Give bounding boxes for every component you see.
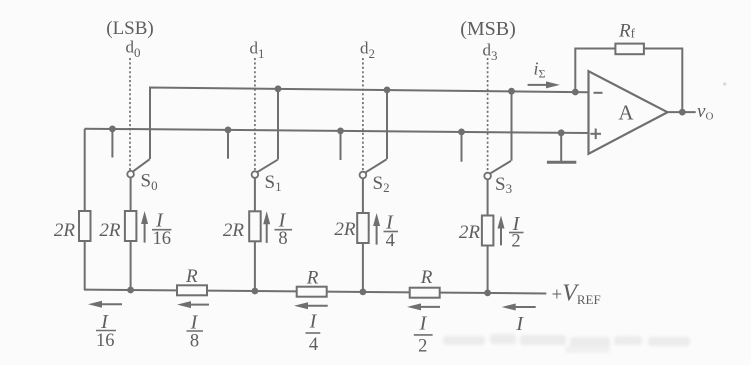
current arrow I/4 up — [373, 213, 380, 245]
ground bus wire — [85, 129, 589, 133]
output wire — [668, 111, 696, 113]
svg-text:S0: S0 — [141, 171, 158, 194]
svg-text:2R: 2R — [99, 220, 121, 241]
wire: S2 branch (pole to rail) — [362, 178, 364, 292]
node: output — [679, 109, 686, 116]
wire: S3 ground contact stub — [461, 132, 463, 162]
svg-text:2R: 2R — [459, 222, 481, 243]
svg-text:vO: vO — [697, 101, 713, 123]
svg-text:R: R — [306, 268, 319, 289]
current label I/4 (rail) — [306, 311, 321, 356]
op-amp U1 triangle — [589, 71, 668, 154]
resistor 2R bit1 — [249, 211, 261, 241]
svg-text:2: 2 — [418, 337, 427, 357]
svg-text:+VREF: +VREF — [552, 281, 601, 308]
wire: S3 summing contact drop — [511, 91, 513, 161]
current label I/8 (rail) — [187, 312, 204, 352]
current label I/16 (rail) — [96, 311, 116, 351]
bit line d2 (dotted) — [362, 58, 364, 172]
svg-text:2R: 2R — [334, 219, 356, 240]
svg-text:(MSB): (MSB) — [460, 18, 516, 40]
resistor 2R bit0 — [125, 211, 136, 241]
switch S3 lever — [490, 161, 511, 174]
node: S3 summing junction — [508, 88, 515, 95]
node: rail node S0 — [127, 287, 134, 294]
resistor 2R bit3 — [482, 216, 494, 246]
wire: S0 ground contact stub — [111, 129, 113, 158]
wire: terminator branch (ground bus to rail) — [84, 129, 86, 290]
current label I/2 (rail) — [414, 313, 433, 357]
wire: S0 branch (pole to rail) — [130, 177, 132, 290]
op-amp minus input mark — [594, 92, 603, 94]
bottom rail wire (to +VREF) — [84, 290, 546, 294]
ground symbol — [547, 133, 576, 163]
bit line d1 (dotted) — [254, 58, 256, 171]
svg-text:R: R — [420, 267, 433, 288]
svg-text:d2: d2 — [360, 39, 375, 62]
svg-text:R: R — [185, 266, 198, 287]
svg-text:16: 16 — [96, 331, 115, 351]
current arrow i sigma (into op-amp) — [528, 81, 560, 88]
node: S1 summing junction — [275, 85, 282, 92]
switch S2 lever — [365, 159, 387, 173]
resistor R ladder2 — [297, 287, 327, 297]
resistor R ladder3 — [410, 288, 440, 298]
svg-text:2R: 2R — [223, 220, 245, 241]
current label I/8 (branch) — [275, 210, 293, 250]
resistor R ladder1 — [177, 285, 207, 295]
svg-text:I: I — [515, 313, 524, 335]
switch S0 pole — [127, 171, 134, 178]
feedback wire (summing node up and over to output) — [575, 49, 682, 113]
node: S1 ground junction — [225, 126, 232, 133]
current label I/16 (branch) — [152, 210, 171, 250]
op-amp plus input mark — [590, 129, 601, 140]
current arrow I/16 rail (left) — [88, 301, 122, 308]
current arrow I/2 rail — [407, 303, 440, 310]
switch S0 lever — [133, 159, 150, 172]
resistor Rf — [615, 44, 644, 55]
summing bus wire — [150, 88, 588, 160]
svg-text:2: 2 — [511, 232, 520, 252]
svg-text:4: 4 — [309, 335, 318, 355]
current arrow I/4 rail — [294, 302, 328, 309]
svg-text:16: 16 — [152, 229, 171, 249]
svg-text:8: 8 — [278, 229, 287, 249]
svg-text:S1: S1 — [265, 172, 282, 194]
wire: S1 summing contact drop — [277, 89, 279, 160]
node: rail node S3 — [484, 290, 491, 297]
svg-text:I: I — [309, 311, 318, 333]
wire: S1 branch (pole to rail) — [254, 178, 256, 291]
svg-text:d1: d1 — [250, 39, 265, 62]
watermark smudge (scan artifact) — [443, 334, 690, 353]
switch S3 pole — [484, 173, 491, 180]
svg-text:A: A — [618, 101, 634, 125]
resistor 2R bit2 — [357, 213, 369, 243]
svg-text:4: 4 — [386, 231, 395, 251]
current arrow I/2 up — [498, 216, 505, 246]
svg-text:S3: S3 — [495, 174, 512, 196]
current arrow I rail (near VREF) — [502, 304, 536, 311]
svg-text:2R: 2R — [54, 220, 76, 241]
current arrow I/8 up — [263, 211, 270, 243]
node: rail node S2 — [360, 289, 367, 296]
node: ground tap on ground bus — [558, 129, 565, 136]
switch S1 pole — [252, 171, 259, 178]
bit line d3 (dotted) — [487, 58, 489, 173]
scan artifact dot — [723, 82, 726, 85]
svg-text:S2: S2 — [373, 173, 390, 195]
wire: S3 branch (pole to rail) — [487, 179, 489, 293]
current label I/2 (branch) — [509, 213, 524, 252]
node: S2 ground junction — [337, 127, 344, 134]
switch S1 lever — [257, 160, 278, 173]
svg-text:iΣ: iΣ — [534, 59, 546, 81]
node: S0 ground junction — [109, 125, 116, 132]
current arrow I/16 up — [141, 211, 148, 243]
node: S2 summing junction — [384, 87, 391, 94]
svg-text:d3: d3 — [483, 41, 498, 64]
current label I/4 (branch) — [384, 212, 399, 252]
node: S3 ground junction — [458, 129, 465, 136]
node: feedback tap on summing bus — [572, 89, 579, 96]
svg-text:8: 8 — [190, 332, 199, 352]
svg-text:d0: d0 — [126, 38, 141, 61]
svg-text:(LSB): (LSB) — [106, 18, 154, 39]
wire: S2 summing contact drop — [386, 90, 388, 159]
svg-text:I: I — [419, 313, 428, 335]
wire: S2 ground contact stub — [340, 131, 342, 160]
resistor 2R terminator — [79, 211, 91, 241]
wire: S1 ground contact stub — [227, 130, 229, 159]
switch S2 pole — [360, 172, 367, 179]
bit line d0 (dotted) — [129, 58, 131, 171]
svg-text:Rf: Rf — [618, 21, 636, 42]
node: rail node S1 — [252, 288, 259, 295]
current arrow I/8 rail — [177, 301, 209, 308]
